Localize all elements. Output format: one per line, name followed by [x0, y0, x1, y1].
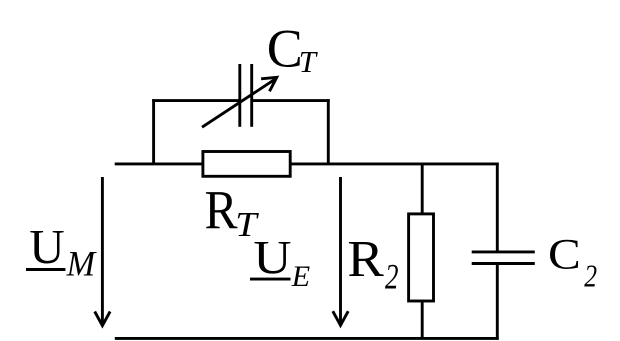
wire CT branch left vertical — [152, 99, 155, 164]
voltage arrow UE — [333, 177, 348, 325]
capacitor C2 — [472, 252, 535, 264]
svg-text:E: E — [291, 260, 310, 293]
wire C2 branch top — [496, 163, 499, 252]
wire C2 branch bottom — [496, 264, 499, 340]
svg-text:2: 2 — [584, 259, 597, 294]
voltage arrow UM — [95, 177, 110, 326]
svg-text:U: U — [29, 219, 64, 274]
svg-text:R: R — [205, 180, 238, 241]
svg-text:R: R — [347, 229, 384, 288]
svg-text:M: M — [66, 244, 97, 284]
svg-text:2: 2 — [385, 257, 399, 297]
wire R2 branch bottom — [421, 300, 424, 338]
capacitor CT (variable: plates + diagonal arrow) — [202, 64, 277, 127]
resistor RT — [203, 152, 290, 177]
wire R2 branch top — [421, 164, 424, 215]
svg-text:U: U — [253, 231, 291, 284]
svg-text:C: C — [267, 19, 303, 79]
wire top rail — [115, 162, 499, 165]
wire CT branch top-right horizontal — [252, 99, 330, 102]
wire bottom rail — [115, 337, 499, 340]
svg-text:T: T — [299, 44, 319, 79]
wire CT branch top-left horizontal — [152, 99, 240, 102]
resistor R2 — [409, 214, 434, 301]
wire CT branch right vertical — [327, 99, 330, 164]
svg-text:C: C — [548, 231, 581, 279]
